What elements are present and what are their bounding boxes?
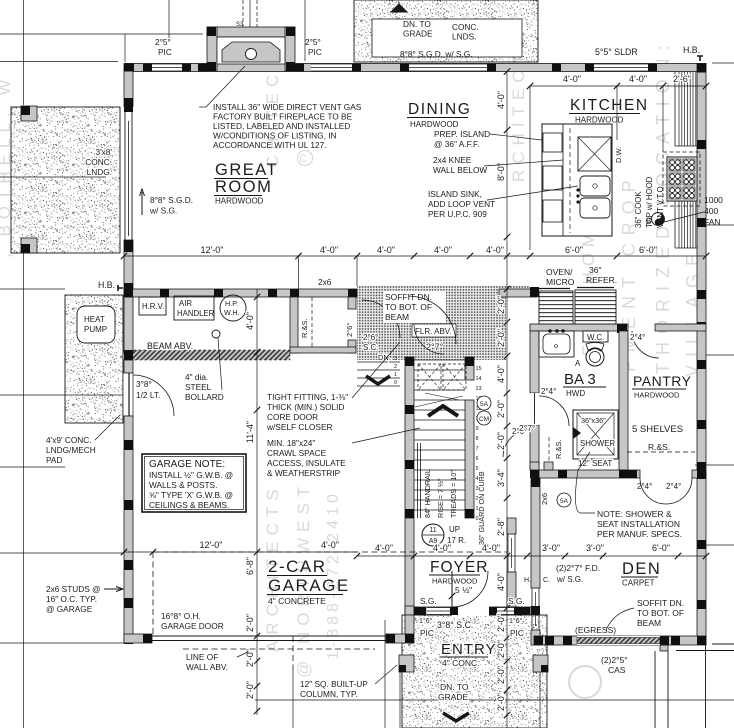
garage dashed: line of wall above — [152, 552, 154, 636]
svg-text:BA 3: BA 3 — [564, 371, 596, 388]
svg-text:2°5°: 2°5° — [305, 37, 321, 47]
wall: BA3/pantry divider x619 — [619, 331, 628, 470]
svg-text:2x6: 2x6 — [318, 277, 332, 287]
posts: top wall — [125, 64, 134, 72]
svg-text:4'-0": 4'-0" — [486, 245, 504, 255]
svg-text:4" CONCRETE: 4" CONCRETE — [268, 596, 326, 606]
svg-text:2'-0": 2'-0" — [496, 614, 506, 632]
window: den egress w/ hatched sill — [577, 636, 660, 645]
svg-text:REFER.: REFER. — [586, 275, 617, 285]
stair tag circle — [422, 524, 444, 546]
svg-text:ISLAND SINK,: ISLAND SINK, — [428, 189, 482, 199]
svg-text:2'-0": 2'-0" — [245, 681, 255, 699]
svg-text:2: 2 — [394, 364, 397, 370]
counter right wall lower — [674, 190, 676, 248]
svg-text:CARPET: CARPET — [622, 579, 655, 588]
svg-text:R.&S.: R.&S. — [554, 439, 563, 459]
svg-text:STEEL: STEEL — [185, 382, 212, 392]
svg-text:GARAGE NOTE:: GARAGE NOTE: — [149, 459, 225, 470]
svg-text:@ GARAGE: @ GARAGE — [46, 604, 93, 614]
svg-text:LNDS.: LNDS. — [452, 32, 476, 42]
dim col: x507 vertical — [506, 72, 508, 728]
svg-text:FAN: FAN — [704, 217, 721, 227]
svg-text:BOLLARD: BOLLARD — [185, 392, 224, 402]
svg-text:w/ S.G.: w/ S.G. — [149, 206, 177, 216]
svg-text:FOYER: FOYER — [430, 559, 488, 576]
svg-text:2°4°: 2°4° — [541, 387, 556, 396]
svg-text:4'-0": 4'-0" — [563, 74, 581, 84]
svg-text:5 ½": 5 ½" — [455, 585, 472, 595]
wall: den south — [534, 636, 706, 645]
svg-text:H.B.: H.B. — [683, 45, 700, 55]
note: garage note box — [142, 454, 246, 512]
svg-text:TREADS = 10": TREADS = 10" — [449, 470, 458, 518]
svg-text:R.&S.: R.&S. — [300, 318, 309, 338]
svg-text:4'-0": 4'-0" — [629, 74, 647, 84]
svg-text:4" CONC.: 4" CONC. — [442, 658, 480, 668]
svg-text:C.: C. — [543, 577, 550, 584]
wall: BA3/hall west x530 — [530, 331, 539, 393]
island cabinets — [543, 133, 562, 152]
svg-text:2'-0": 2'-0" — [245, 649, 255, 667]
svg-text:6'-8": 6'-8" — [245, 557, 255, 575]
svg-text:11: 11 — [429, 527, 436, 534]
entry porch columns — [399, 655, 414, 672]
grid lines: right edge — [712, 62, 734, 64]
svg-text:INSTALL ½" G.W.B. @: INSTALL ½" G.W.B. @ — [149, 470, 233, 480]
svg-text:WALL ABV.: WALL ABV. — [186, 662, 228, 672]
svg-text:H.P.: H.P. — [225, 299, 238, 308]
svg-text:MICRO: MICRO — [546, 277, 575, 287]
svg-text:3°8° S.C.: 3°8° S.C. — [437, 620, 473, 630]
dim row: kitchen top y86 — [530, 85, 706, 87]
svg-text:PREP. ISLAND: PREP. ISLAND — [434, 129, 490, 139]
svg-text:DEN: DEN — [622, 560, 661, 578]
dim row: garage y552 — [124, 551, 357, 553]
door arc: pantry — [632, 331, 659, 358]
svg-text:w/SELF CLOSER: w/SELF CLOSER — [266, 422, 332, 432]
svg-text:FLR. ABV.: FLR. ABV. — [415, 327, 452, 336]
concrete: entry porch — [402, 615, 547, 728]
svg-text:PIC: PIC — [420, 628, 434, 638]
svg-text:5A: 5A — [560, 498, 569, 505]
svg-text:4" dia.: 4" dia. — [185, 372, 208, 382]
svg-text:WALL BELOW: WALL BELOW — [433, 165, 487, 175]
svg-text:3'-4": 3'-4" — [496, 469, 506, 487]
svg-text:W/CONDITIONS OF LISTING, IN: W/CONDITIONS OF LISTING, IN — [213, 131, 337, 141]
svg-text:HARDWOOD: HARDWOOD — [634, 391, 680, 400]
svg-text:PER MANUF. SPECS.: PER MANUF. SPECS. — [597, 529, 682, 539]
svg-text:AIR: AIR — [179, 299, 192, 308]
svg-text:2°6°: 2°6° — [363, 333, 378, 342]
svg-text:HARDWOOD: HARDWOOD — [410, 120, 459, 129]
svg-text:DINING: DINING — [408, 101, 471, 118]
cooktop right wall w/ burners — [663, 152, 700, 206]
svg-text:4'-0": 4'-0" — [321, 540, 339, 550]
stair treads — [414, 359, 465, 361]
svg-text:4'-0": 4'-0" — [496, 365, 506, 383]
handrail — [417, 443, 419, 518]
garage door lines — [152, 635, 386, 637]
dim row: foyer y556 — [357, 555, 706, 557]
svg-text:LISTED, LABELED AND INSTALLED: LISTED, LABELED AND INSTALLED — [213, 121, 350, 131]
smoke sym B — [652, 213, 665, 226]
svg-text:COLUMN, TYP.: COLUMN, TYP. — [300, 689, 358, 699]
svg-text:(EGRESS): (EGRESS) — [575, 625, 616, 635]
svg-text:LINE OF: LINE OF — [186, 652, 218, 662]
svg-text:4'-0": 4'-0" — [496, 91, 506, 109]
svg-text:400: 400 — [704, 206, 718, 216]
svg-text:ADD LOOP VENT: ADD LOOP VENT — [428, 199, 495, 209]
svg-text:CEILINGS & BEAMS.: CEILINGS & BEAMS. — [149, 500, 229, 510]
wall: foyer west — [405, 518, 414, 615]
svg-text:GRADE: GRADE — [438, 692, 469, 702]
wall: interior y289 great room south — [124, 289, 357, 297]
pantry dashes — [627, 451, 695, 453]
svg-text:WALLS & POSTS.: WALLS & POSTS. — [149, 480, 217, 490]
svg-text:6'-0": 6'-0" — [565, 245, 583, 255]
svg-text:36"x36": 36"x36" — [581, 416, 606, 425]
svg-text:13: 13 — [476, 386, 482, 392]
svg-text:PIC: PIC — [510, 628, 524, 638]
svg-text:2'-0": 2'-0" — [496, 329, 506, 347]
svg-text:15: 15 — [476, 366, 482, 372]
island sink double — [580, 176, 610, 196]
svg-text:(2)2°5°: (2)2°5° — [601, 655, 628, 665]
dim row: great room / kitchen y256 — [124, 255, 706, 257]
svg-text:84" HANDRAIL: 84" HANDRAIL — [423, 469, 432, 518]
svg-text:0: 0 — [394, 380, 397, 386]
svg-text:8°8° S.G.D. w/ S.G.: 8°8° S.G.D. w/ S.G. — [400, 49, 473, 59]
svg-text:w/ S.G.: w/ S.G. — [556, 575, 583, 584]
svg-text:4'-0": 4'-0" — [375, 543, 393, 553]
svg-text:6: 6 — [476, 456, 479, 462]
svg-text:7: 7 — [476, 446, 479, 452]
svg-text:36": 36" — [589, 265, 601, 275]
dim col: x257 vertical (garage) — [256, 289, 258, 715]
svg-text:2°7°: 2°7° — [426, 342, 444, 352]
svg-text:A: A — [575, 359, 581, 368]
svg-text:HANDLER: HANDLER — [177, 309, 215, 318]
svg-text:HWD: HWD — [566, 389, 585, 398]
concrete landing: left 3x8 — [11, 107, 120, 253]
svg-text:16°8° O.H.: 16°8° O.H. — [161, 611, 201, 621]
svg-text:2°4°: 2°4° — [637, 482, 652, 491]
grid lines: left middle — [0, 176, 106, 178]
svg-text:CM: CM — [479, 416, 489, 423]
svg-text:4'-0": 4'-0" — [434, 245, 452, 255]
svg-text:9: 9 — [476, 426, 479, 432]
svg-text:SOFFIT DN.: SOFFIT DN. — [637, 598, 684, 608]
svg-text:8°8° S.G.D.: 8°8° S.G.D. — [150, 195, 193, 205]
svg-text:2°5°: 2°5° — [155, 37, 171, 47]
svg-text:2'-6": 2'-6" — [673, 74, 691, 84]
svg-text:TO BOT. OF: TO BOT. OF — [385, 302, 432, 312]
svg-text:5: 5 — [476, 466, 479, 472]
svg-text:2°6°: 2°6° — [345, 323, 354, 337]
stair up arrow — [428, 406, 458, 416]
svg-text:FACTORY BUILT FIREPLACE TO BE: FACTORY BUILT FIREPLACE TO BE — [213, 112, 353, 122]
svg-text:SEAT INSTALLATION: SEAT INSTALLATION — [597, 519, 680, 529]
svg-text:3'-0": 3'-0" — [542, 543, 560, 553]
svg-text:NOTE: SHOWER &: NOTE: SHOWER & — [597, 509, 672, 519]
svg-text:D.W.: D.W. — [614, 147, 623, 163]
svg-text:S.G.: S.G. — [508, 596, 525, 606]
grid lines: bottom edge — [292, 670, 294, 728]
svg-text:PIC: PIC — [308, 47, 322, 57]
svg-text:36" COOK: 36" COOK — [634, 191, 643, 228]
svg-text:TIGHT FITTING, 1-⅜": TIGHT FITTING, 1-⅜" — [267, 392, 348, 402]
hall closet — [548, 437, 550, 468]
vanity — [539, 331, 574, 357]
grid lines: top edge — [0, 33, 203, 35]
svg-text:12'-0": 12'-0" — [200, 540, 223, 550]
shower — [573, 410, 618, 459]
svg-text:R.&S.: R.&S. — [648, 442, 670, 452]
svg-text:RISE = 7 ½": RISE = 7 ½" — [436, 478, 445, 518]
post: landing corners — [21, 106, 37, 121]
svg-text:⅝" TYPE 'X' G.W.B. @: ⅝" TYPE 'X' G.W.B. @ — [149, 490, 233, 500]
wall: left exterior (great room) — [124, 64, 133, 107]
svg-text:8'-0": 8'-0" — [496, 163, 506, 181]
door arcs: den double — [640, 478, 666, 504]
svg-text:CONC.: CONC. — [85, 157, 112, 167]
door arc: hall 2-6 — [503, 430, 530, 457]
svg-text:OVEN/: OVEN/ — [546, 267, 573, 277]
svg-text:PER U.P.C. 909: PER U.P.C. 909 — [428, 209, 487, 219]
concrete: heat pump pad — [65, 295, 123, 423]
svg-text:4'x9' CONC.: 4'x9' CONC. — [46, 435, 92, 445]
svg-text:3: 3 — [394, 356, 397, 362]
hall tags — [477, 396, 491, 410]
svg-text:BEAM: BEAM — [637, 618, 661, 628]
toilet W.C. — [583, 331, 608, 342]
fan note right — [664, 212, 704, 222]
svg-text:LNDG/MECH: LNDG/MECH — [46, 445, 96, 455]
svg-text:12" SQ. BUILT-UP: 12" SQ. BUILT-UP — [300, 679, 368, 689]
svg-text:5°5° SLDR: 5°5° SLDR — [595, 47, 638, 57]
wall: stair shaft — [405, 357, 414, 518]
svg-text:12" SEAT: 12" SEAT — [578, 459, 612, 468]
svg-text:2'-8": 2'-8" — [496, 518, 506, 536]
wall: BA3 north — [530, 324, 628, 331]
wall: garage south (door header) — [124, 634, 152, 643]
island cooktop — [578, 137, 611, 171]
svg-text:SOFFIT DN.: SOFFIT DN. — [385, 292, 432, 302]
window: left SGD — [124, 112, 126, 240]
wall: kitchen south segment — [499, 289, 537, 297]
svg-text:BEAM ABV.: BEAM ABV. — [147, 341, 193, 351]
svg-text:2'-0": 2'-0" — [496, 640, 506, 658]
door arc: BA3 — [530, 393, 539, 425]
utility room: closet walls — [290, 297, 298, 353]
svg-text:VENT V.T.O.: VENT V.T.O. — [656, 184, 665, 228]
svg-text:14: 14 — [476, 376, 482, 382]
svg-text:LNDG.: LNDG. — [87, 167, 112, 177]
svg-text:GREAT: GREAT — [215, 161, 278, 179]
wall: den west x531 — [531, 478, 540, 588]
svg-text:HARDWOOD: HARDWOOD — [575, 116, 624, 125]
svg-text:CORE DOOR: CORE DOOR — [267, 412, 318, 422]
svg-text:2x6: 2x6 — [540, 493, 549, 505]
svg-text:S.C.: S.C. — [363, 343, 379, 352]
svg-text:1/2 LT.: 1/2 LT. — [136, 390, 160, 400]
svg-text:2°4°: 2°4° — [630, 333, 645, 342]
svg-text:2x4 KNEE: 2x4 KNEE — [433, 155, 472, 165]
svg-text:UP: UP — [449, 525, 460, 534]
wall: garage south east piece — [386, 634, 414, 643]
white label boxes over soffit — [383, 291, 446, 323]
svg-text:8: 8 — [476, 436, 479, 442]
svg-text:4'-0": 4'-0" — [496, 573, 506, 591]
svg-text:4'-0": 4'-0" — [245, 312, 255, 330]
svg-text:HARDWOOD: HARDWOOD — [215, 197, 264, 206]
svg-text:THICK (MIN.) SOLID: THICK (MIN.) SOLID — [267, 402, 344, 412]
soffit hatch band center — [357, 286, 506, 360]
basement stair DN — [357, 361, 400, 363]
svg-text:S.G.: S.G. — [420, 596, 437, 606]
svg-text:BEAM: BEAM — [385, 312, 409, 322]
svg-text:3'-0": 3'-0" — [586, 543, 604, 553]
svg-text:PUMP: PUMP — [84, 325, 107, 334]
svg-text:2'-0": 2'-0" — [496, 666, 506, 684]
svg-text:2'-0": 2'-0" — [496, 400, 506, 418]
stair dashed flight above — [418, 364, 441, 390]
svg-text:5 SHELVES: 5 SHELVES — [632, 424, 683, 435]
svg-text:H.: H. — [524, 577, 531, 584]
svg-text:11'-4": 11'-4" — [245, 421, 255, 443]
svg-text:4'-0": 4'-0" — [320, 245, 338, 255]
wall: left exterior (garage) — [124, 297, 133, 353]
svg-text:ACCORDANCE WITH UL 127.: ACCORDANCE WITH UL 127. — [213, 140, 327, 150]
svg-text:16" O.C. TYP.: 16" O.C. TYP. — [46, 594, 97, 604]
wall: pantry south / den north — [530, 462, 539, 470]
svg-text:GRADE: GRADE — [403, 29, 433, 39]
svg-text:MIN. 18"x24": MIN. 18"x24" — [267, 438, 315, 448]
svg-text:W.H.: W.H. — [224, 308, 240, 317]
svg-text:INSTALL 36" WIDE DIRECT VENT G: INSTALL 36" WIDE DIRECT VENT GAS — [213, 102, 362, 112]
closet rod dashed — [311, 297, 313, 347]
svg-text:2°7°: 2°7° — [519, 423, 535, 433]
svg-text:H.B.: H.B. — [98, 280, 115, 290]
wall: top exterior — [125, 64, 706, 72]
chimney flue dashed lines — [242, 0, 244, 30]
svg-text:DN. TO: DN. TO — [403, 19, 431, 29]
counter right wall — [674, 72, 676, 147]
svg-text:2'-0": 2'-0" — [245, 614, 255, 632]
concrete landing: top porch — [354, 0, 538, 62]
wall: right exterior — [697, 64, 706, 645]
kitchen island — [542, 124, 612, 236]
svg-text:HEAT: HEAT — [84, 315, 105, 324]
bollard — [212, 330, 220, 338]
svg-text:DN. TO: DN. TO — [440, 682, 469, 692]
svg-text:2'-0": 2'-0" — [496, 693, 506, 711]
svg-text:ROOM: ROOM — [215, 178, 272, 196]
svg-text:PAD: PAD — [46, 455, 62, 465]
fireplace firebox — [222, 42, 280, 62]
beam hatch band left — [133, 350, 290, 360]
svg-text:2-CAR: 2-CAR — [268, 557, 327, 576]
svg-text:3'x8': 3'x8' — [95, 147, 112, 157]
svg-text:4'-0": 4'-0" — [377, 245, 395, 255]
svg-text:4'-0": 4'-0" — [482, 543, 500, 553]
heat pump unit — [77, 306, 115, 343]
svg-text:H.R.V.: H.R.V. — [142, 302, 164, 311]
wall: foyer east / hall — [507, 518, 516, 534]
svg-text:2'-0": 2'-0" — [496, 432, 506, 450]
svg-text:6'-0": 6'-0" — [652, 543, 670, 553]
svg-text:PANTRY: PANTRY — [633, 373, 692, 389]
door arc: front entry — [452, 571, 488, 607]
svg-text:2'-0": 2'-0" — [496, 296, 506, 314]
door: 3-8 1/2LT man door — [123, 373, 133, 416]
svg-text:TO BOT. OF: TO BOT. OF — [637, 608, 684, 618]
grid line: left vertical — [23, 0, 25, 105]
svg-text:W.C.: W.C. — [587, 333, 604, 342]
svg-text:3°8°: 3°8° — [136, 379, 152, 389]
svg-text:1: 1 — [394, 372, 397, 378]
svg-text:KITCHEN: KITCHEN — [570, 97, 649, 114]
door arc: closet/basement — [362, 300, 400, 338]
svg-text:36" GUARD ON CURB: 36" GUARD ON CURB — [477, 471, 486, 545]
wall: foyer south — [405, 606, 414, 615]
svg-text:1°6°: 1°6° — [419, 617, 433, 625]
svg-text:CONC.: CONC. — [452, 22, 479, 32]
window: den west sidelight — [531, 588, 533, 630]
utility boxes — [139, 297, 166, 315]
svg-text:4'-0": 4'-0" — [433, 543, 451, 553]
door arc over soffit — [408, 296, 456, 344]
svg-text:C: C — [299, 153, 307, 165]
fireplace bump-out — [207, 27, 295, 37]
svg-text:SHOWER: SHOWER — [580, 439, 615, 448]
svg-text:6'-0": 6'-0" — [639, 245, 657, 255]
windows in top wall — [151, 64, 182, 72]
svg-text:CAS: CAS — [608, 665, 626, 675]
svg-text:TOP w/ HOOD: TOP w/ HOOD — [645, 176, 654, 228]
svg-text:GARAGE: GARAGE — [268, 576, 350, 595]
svg-text:12'-0": 12'-0" — [201, 245, 224, 255]
svg-text:@ 36" A.F.F.: @ 36" A.F.F. — [434, 139, 480, 149]
svg-text:ENTRY: ENTRY — [441, 641, 497, 658]
svg-text:5A: 5A — [480, 401, 489, 408]
bay stub — [660, 645, 668, 651]
svg-text:CRAWL SPACE: CRAWL SPACE — [267, 448, 327, 458]
svg-text:ACCESS, INSULATE: ACCESS, INSULATE — [267, 458, 346, 468]
svg-text:1°6°: 1°6° — [509, 617, 523, 625]
svg-text:2°4°: 2°4° — [666, 482, 681, 491]
svg-text:2x6 STUDS @: 2x6 STUDS @ — [46, 584, 101, 594]
svg-text:GARAGE DOOR: GARAGE DOOR — [161, 621, 224, 631]
svg-text:(2)2°7° F.D.: (2)2°7° F.D. — [556, 563, 600, 573]
svg-text:1000: 1000 — [704, 195, 723, 205]
svg-text:PIC: PIC — [158, 47, 172, 57]
svg-text:& WEATHERSTRIP: & WEATHERSTRIP — [267, 468, 341, 478]
